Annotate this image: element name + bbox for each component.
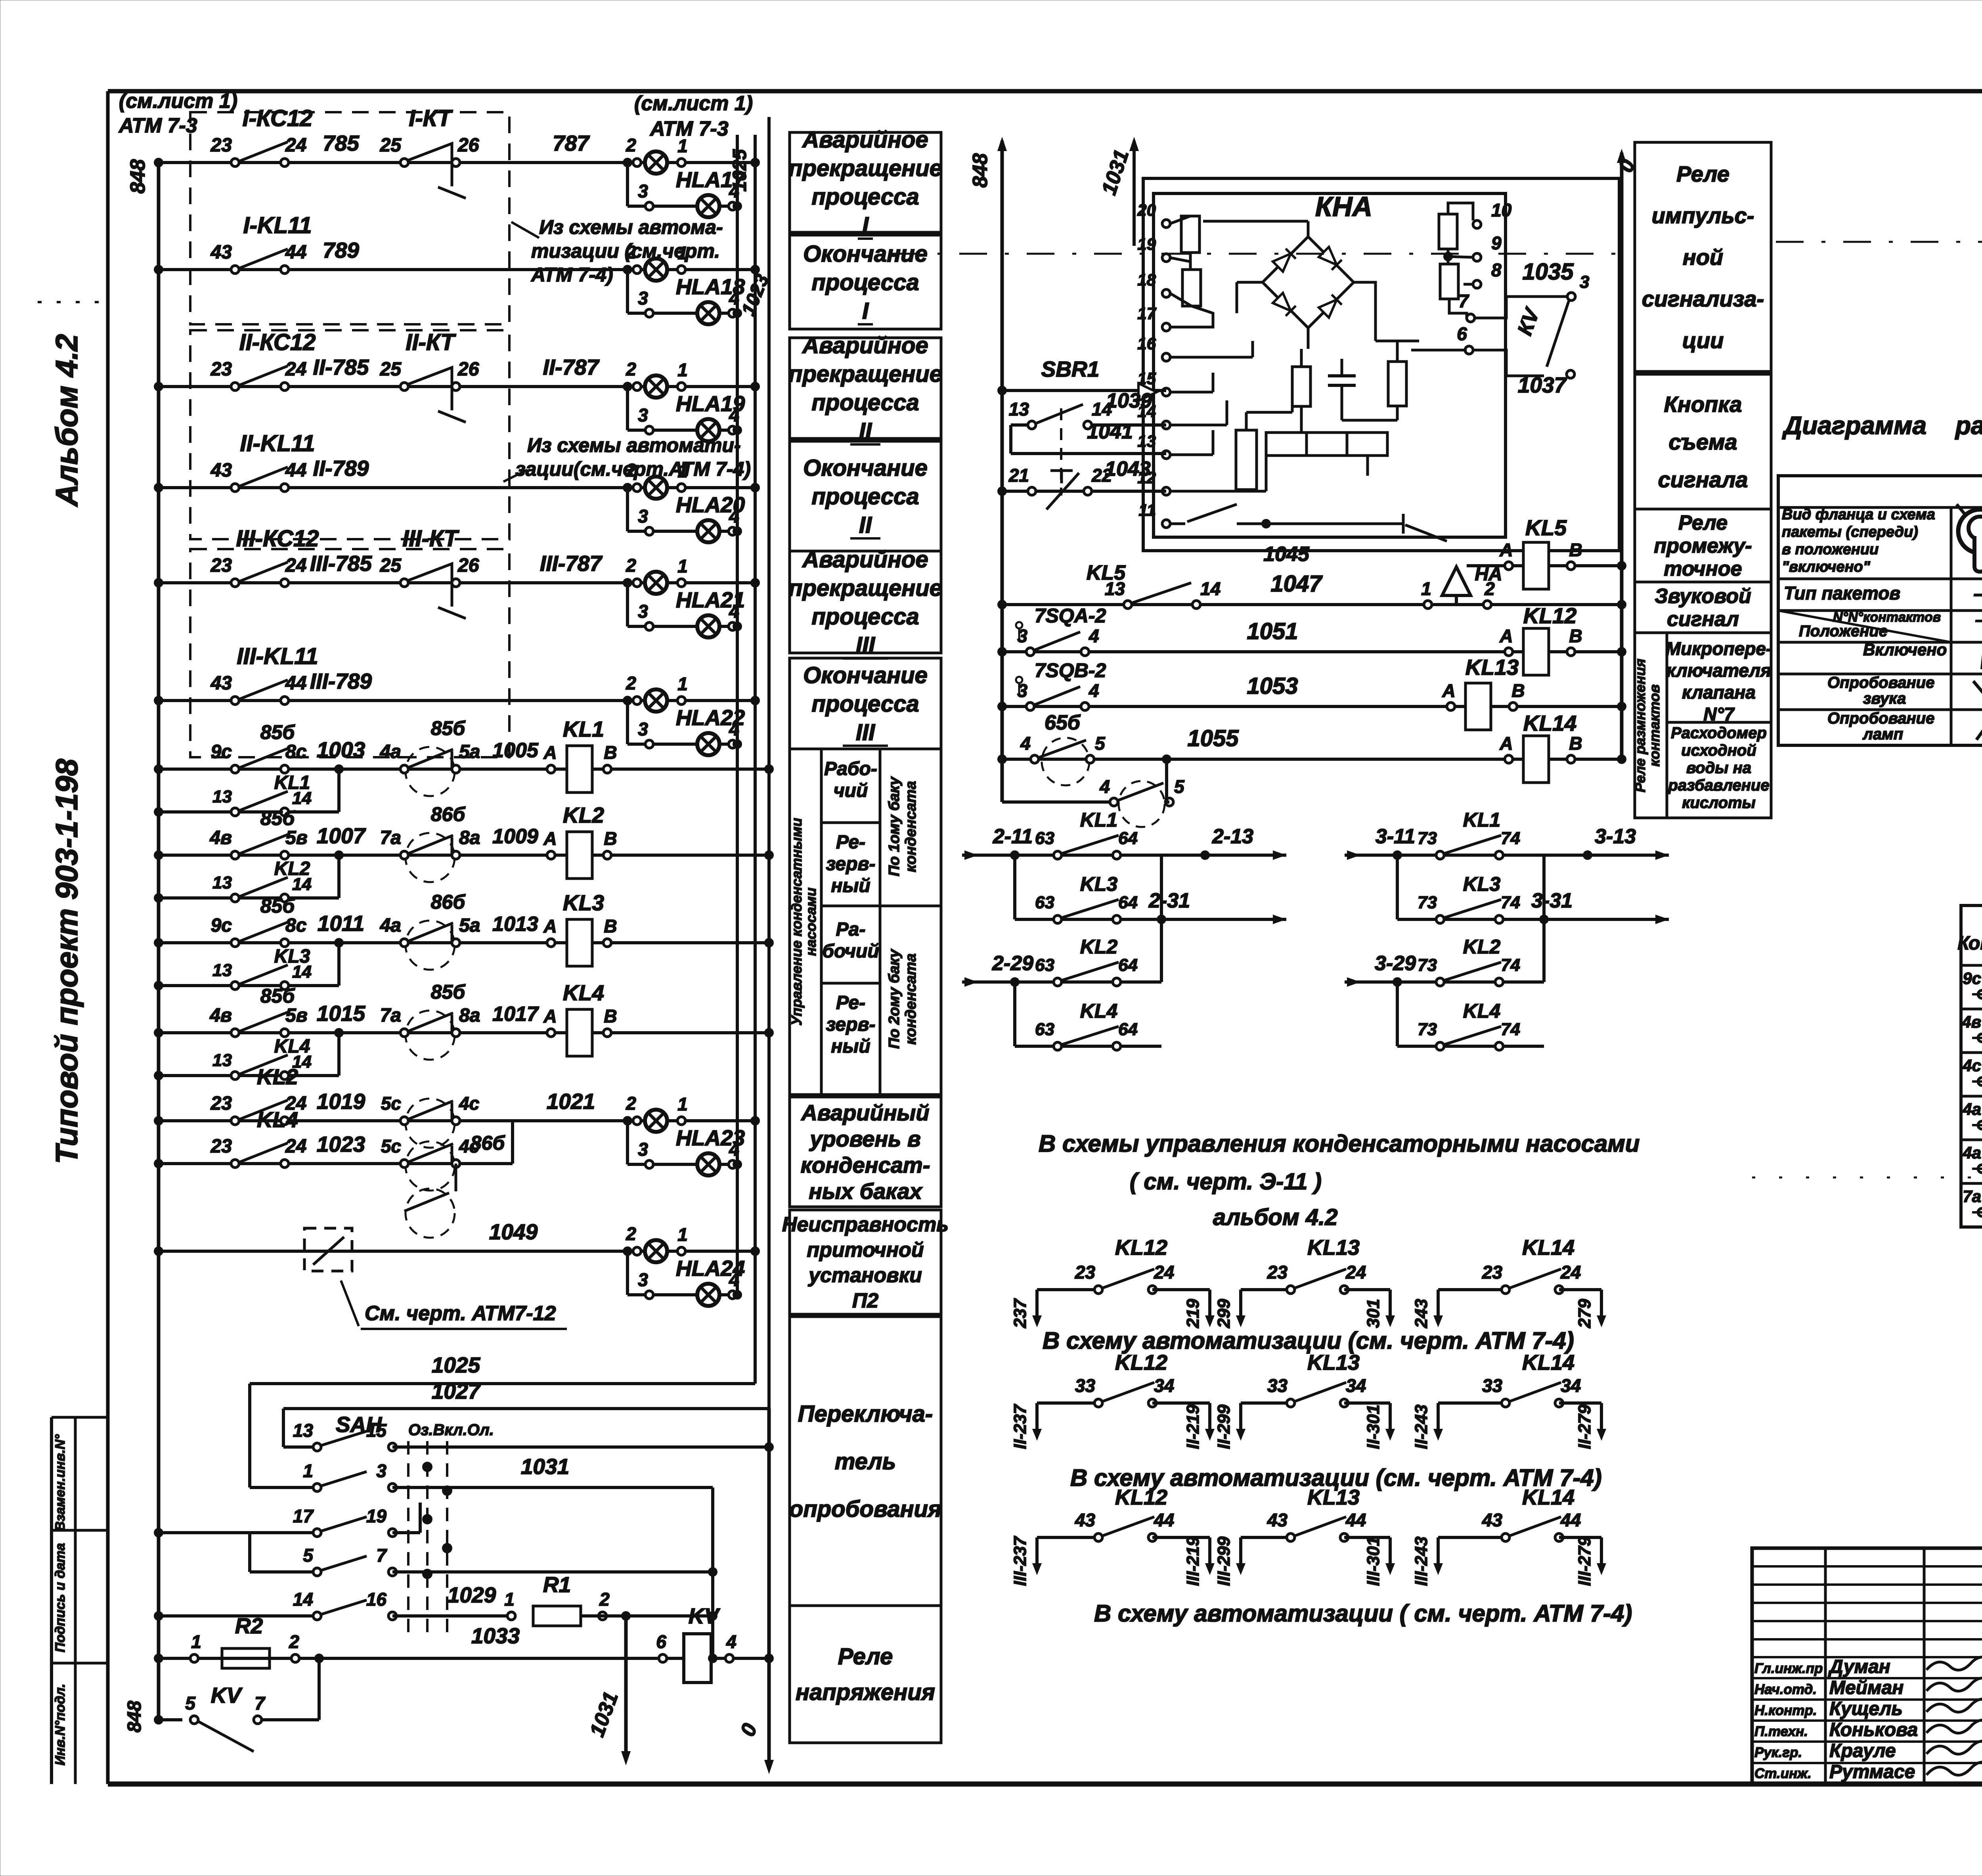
svg-text:По 2ому баку: По 2ому баку xyxy=(886,949,903,1049)
svg-text:приточной: приточной xyxy=(807,1239,924,1262)
svg-text:Микропере-: Микропере- xyxy=(1666,638,1772,659)
svg-text:А: А xyxy=(1499,540,1513,560)
svg-text:HLA17: HLA17 xyxy=(676,167,746,192)
svg-text:20: 20 xyxy=(1137,201,1156,219)
svg-text:2: 2 xyxy=(626,1223,636,1244)
svg-text:Ра-: Ра- xyxy=(836,919,866,940)
svg-text:13: 13 xyxy=(212,1051,232,1070)
svg-text:24: 24 xyxy=(285,359,306,380)
svg-text:Опробование: Опробование xyxy=(1827,674,1934,691)
svg-text:Мейман: Мейман xyxy=(1829,1677,1904,1698)
svg-text:73: 73 xyxy=(1418,893,1437,912)
svg-text:1043: 1043 xyxy=(1105,458,1151,480)
svg-text:II-299: II-299 xyxy=(1214,1404,1234,1449)
svg-text:2: 2 xyxy=(599,1589,610,1610)
svg-text:785: 785 xyxy=(323,131,360,155)
svg-text:1015: 1015 xyxy=(317,1001,366,1026)
svg-text:Положение: Положение xyxy=(1799,622,1888,640)
svg-text:7: 7 xyxy=(376,1545,387,1566)
svg-text:4в: 4в xyxy=(209,1005,232,1026)
svg-text:299: 299 xyxy=(1214,1299,1234,1329)
svg-text:Ре-: Ре- xyxy=(836,992,865,1013)
svg-text:Из схемы автомати-: Из схемы автомати- xyxy=(527,434,741,456)
svg-text:2: 2 xyxy=(626,555,636,576)
svg-text:6: 6 xyxy=(656,1631,666,1652)
svg-text:зерв-: зерв- xyxy=(826,854,876,875)
svg-text:В: В xyxy=(604,742,617,763)
svg-text:конденсат-: конденсат- xyxy=(801,1152,930,1177)
svg-text:KL13: KL13 xyxy=(1465,655,1519,680)
svg-text:21: 21 xyxy=(1008,465,1029,486)
svg-text:KL1: KL1 xyxy=(1080,809,1117,831)
svg-text:1049: 1049 xyxy=(489,1219,538,1244)
svg-text:1041: 1041 xyxy=(1087,420,1133,443)
svg-text:В схему автоматизации (с: В схему автоматизации (см. черт. АТМ 7-4… xyxy=(1043,1327,1574,1354)
svg-text:II-787: II-787 xyxy=(543,355,600,379)
svg-text:II-237: II-237 xyxy=(1010,1403,1030,1449)
svg-text:17: 17 xyxy=(293,1506,314,1526)
svg-text:Реле: Реле xyxy=(1676,161,1729,186)
svg-text:промежу-: промежу- xyxy=(1654,534,1752,557)
svg-text:13: 13 xyxy=(293,1420,314,1441)
svg-text:III-785: III-785 xyxy=(310,551,372,576)
svg-text:Типовой проект 903-1-198: Типовой проект 903-1-198 xyxy=(49,758,84,1164)
svg-text:II-219: II-219 xyxy=(1183,1404,1203,1449)
svg-text:KL4: KL4 xyxy=(1463,1000,1500,1022)
svg-text:1037: 1037 xyxy=(1518,373,1567,397)
svg-text:3: 3 xyxy=(638,1269,648,1290)
svg-text:ный: ный xyxy=(831,875,870,896)
svg-text:I-КТ: I-КТ xyxy=(409,105,453,131)
svg-text:HLA23: HLA23 xyxy=(676,1126,745,1150)
svg-text:44: 44 xyxy=(1560,1510,1581,1530)
svg-text:13: 13 xyxy=(212,787,232,806)
svg-text:II-279: II-279 xyxy=(1575,1404,1594,1449)
svg-text:Ст.инж.: Ст.инж. xyxy=(1754,1766,1812,1781)
svg-text:KL12: KL12 xyxy=(1115,1236,1167,1260)
svg-text:См. черт. АТМ7-12: См. черт. АТМ7-12 xyxy=(365,1302,556,1325)
svg-text:43: 43 xyxy=(1075,1510,1096,1530)
svg-text:1033: 1033 xyxy=(471,1623,520,1648)
svg-text:3: 3 xyxy=(638,1139,648,1160)
svg-text:848: 848 xyxy=(969,153,992,188)
svg-text:R2: R2 xyxy=(235,1614,263,1638)
svg-text:П2: П2 xyxy=(852,1289,878,1312)
svg-text:1: 1 xyxy=(303,1461,313,1481)
svg-text:контактов: контактов xyxy=(1646,684,1663,767)
svg-text:Неисправность: Неисправность xyxy=(782,1213,949,1236)
svg-text:3: 3 xyxy=(638,506,648,526)
svg-text:R1: R1 xyxy=(543,1572,571,1597)
svg-text:24: 24 xyxy=(1345,1262,1366,1283)
svg-text:KL1: KL1 xyxy=(274,772,310,793)
svg-text:В: В xyxy=(1569,626,1582,646)
svg-text:III: III xyxy=(856,720,876,745)
svg-text:1009: 1009 xyxy=(492,825,538,848)
svg-text:ламп: ламп xyxy=(1862,726,1903,743)
svg-text:Гл.инж.пр: Гл.инж.пр xyxy=(1754,1661,1823,1676)
svg-text:III-237: III-237 xyxy=(1010,1535,1030,1586)
svg-text:85б: 85б xyxy=(431,717,466,739)
svg-text:KL4: KL4 xyxy=(1080,1000,1117,1022)
svg-text:25: 25 xyxy=(380,135,402,156)
svg-text:4: 4 xyxy=(1089,626,1099,646)
svg-text:5: 5 xyxy=(1095,733,1106,754)
svg-text:9: 9 xyxy=(1491,233,1502,253)
svg-text:уровень в: уровень в xyxy=(809,1126,921,1151)
svg-text:43: 43 xyxy=(210,673,232,694)
svg-text:разбавление: разбавление xyxy=(1668,777,1769,794)
svg-text:1019: 1019 xyxy=(317,1089,365,1114)
svg-text:чий: чий xyxy=(834,780,868,801)
svg-text:2: 2 xyxy=(626,673,636,693)
svg-text:1: 1 xyxy=(677,1224,688,1245)
svg-text:43: 43 xyxy=(210,242,232,263)
svg-text:Рук.гр.: Рук.гр. xyxy=(1754,1745,1802,1760)
svg-text:5: 5 xyxy=(303,1545,314,1566)
svg-text:787: 787 xyxy=(553,131,590,155)
svg-text:23: 23 xyxy=(1075,1262,1096,1283)
svg-text:86б: 86б xyxy=(471,1132,506,1154)
svg-text:II-301: II-301 xyxy=(1364,1405,1383,1449)
svg-text:III-219: III-219 xyxy=(1183,1536,1203,1586)
svg-text:1: 1 xyxy=(677,556,688,576)
svg-text:—: — xyxy=(1975,610,1982,630)
svg-text:III-301: III-301 xyxy=(1364,1537,1383,1586)
svg-text:3: 3 xyxy=(376,1461,386,1481)
svg-text:тизации (см.черт.: тизации (см.черт. xyxy=(531,240,720,262)
svg-text:5: 5 xyxy=(185,1693,196,1713)
svg-text:пакеты (спереди): пакеты (спереди) xyxy=(1782,524,1918,540)
svg-text:Из схемы автома-: Из схемы автома- xyxy=(539,216,723,238)
svg-text:импульс-: импульс- xyxy=(1652,203,1754,228)
svg-text:33: 33 xyxy=(1075,1375,1096,1396)
svg-text:KL4: KL4 xyxy=(257,1107,298,1132)
svg-text:Альбом 4.2: Альбом 4.2 xyxy=(49,334,84,507)
svg-text:24: 24 xyxy=(1154,1262,1174,1283)
svg-text:В схему автоматизации ( с: В схему автоматизации ( см. черт. АТМ 7-… xyxy=(1094,1600,1632,1627)
svg-text:8: 8 xyxy=(1491,260,1502,280)
svg-text:Аварийное: Аварийное xyxy=(802,333,928,358)
svg-text:24: 24 xyxy=(285,555,306,576)
svg-text:III-243: III-243 xyxy=(1412,1537,1431,1586)
svg-text:KL1: KL1 xyxy=(1463,809,1500,831)
svg-text:2-31: 2-31 xyxy=(1148,889,1190,912)
svg-text:4: 4 xyxy=(1089,680,1099,701)
svg-text:Думан: Думан xyxy=(1828,1656,1890,1677)
svg-text:KL2: KL2 xyxy=(274,858,310,879)
svg-text:АТМ 7-3: АТМ 7-3 xyxy=(649,117,729,140)
svg-text:KL2: KL2 xyxy=(563,803,604,827)
svg-text:Нач.отд.: Нач.отд. xyxy=(1754,1682,1817,1697)
svg-text:10: 10 xyxy=(1491,200,1512,220)
svg-text:26: 26 xyxy=(457,359,479,380)
svg-text:Реле: Реле xyxy=(1678,511,1728,534)
svg-text:Звуковой: Звуковой xyxy=(1655,585,1751,608)
svg-text:16: 16 xyxy=(366,1589,387,1610)
svg-text:напряжения: напряжения xyxy=(796,1679,935,1705)
svg-text:1053: 1053 xyxy=(1247,673,1298,699)
svg-text:73: 73 xyxy=(1418,1020,1437,1039)
svg-text:13: 13 xyxy=(212,961,232,980)
svg-text:насосами: насосами xyxy=(803,888,819,956)
svg-text:KL2: KL2 xyxy=(257,1064,298,1089)
svg-text:3: 3 xyxy=(638,181,648,201)
svg-text:А: А xyxy=(543,742,557,763)
svg-text:1013: 1013 xyxy=(492,913,538,936)
svg-text:9с: 9с xyxy=(1963,969,1981,988)
svg-text:4: 4 xyxy=(726,1631,737,1652)
svg-text:789: 789 xyxy=(323,238,359,262)
svg-text:1027: 1027 xyxy=(432,1379,481,1403)
svg-text:II-789: II-789 xyxy=(313,456,369,480)
svg-text:34: 34 xyxy=(1154,1375,1174,1396)
svg-text:опробования: опробования xyxy=(789,1496,941,1522)
svg-text:конденсата: конденсата xyxy=(903,953,919,1045)
svg-text:7: 7 xyxy=(254,1693,266,1713)
svg-text:85б: 85б xyxy=(431,981,466,1003)
svg-text:"включено": "включено" xyxy=(1782,559,1871,575)
svg-text:11: 11 xyxy=(1138,501,1156,519)
svg-text:III-299: III-299 xyxy=(1214,1536,1234,1586)
svg-text:24: 24 xyxy=(1560,1262,1581,1283)
svg-text:В: В xyxy=(1511,680,1525,701)
svg-text:KL14: KL14 xyxy=(1523,711,1577,735)
svg-text:сигнализа-: сигнализа- xyxy=(1642,286,1764,311)
svg-text:44: 44 xyxy=(1345,1510,1366,1530)
svg-text:прекращение: прекращение xyxy=(788,155,942,181)
svg-text:1: 1 xyxy=(677,136,688,156)
svg-text:2: 2 xyxy=(289,1631,299,1652)
svg-text:279: 279 xyxy=(1575,1299,1594,1329)
svg-text:65б: 65б xyxy=(1045,711,1081,734)
svg-text:5: 5 xyxy=(1174,776,1185,797)
svg-text:воды на: воды на xyxy=(1686,759,1751,777)
svg-text:KL4: KL4 xyxy=(563,980,604,1005)
svg-text:4а: 4а xyxy=(1962,1143,1981,1162)
svg-text:64: 64 xyxy=(1118,1020,1138,1039)
svg-text:23: 23 xyxy=(1267,1262,1288,1283)
svg-text:KL3: KL3 xyxy=(274,946,310,967)
svg-text:301: 301 xyxy=(1364,1299,1383,1328)
svg-text:86б: 86б xyxy=(431,891,466,913)
svg-text:33: 33 xyxy=(1267,1375,1288,1396)
svg-text:1035: 1035 xyxy=(1522,259,1574,285)
svg-text:II-КС12: II-КС12 xyxy=(239,329,316,355)
svg-text:Кнопка: Кнопка xyxy=(1664,392,1742,417)
svg-text:Переключа-: Переключа- xyxy=(798,1401,933,1427)
svg-text:1003: 1003 xyxy=(317,737,365,762)
svg-text:4: 4 xyxy=(1020,733,1031,754)
svg-text:63: 63 xyxy=(1035,955,1054,975)
svg-text:18: 18 xyxy=(1137,270,1156,289)
svg-text:15: 15 xyxy=(366,1420,387,1441)
svg-text:2-11: 2-11 xyxy=(993,825,1033,848)
svg-text:KL5: KL5 xyxy=(1525,515,1567,540)
svg-text:1029: 1029 xyxy=(448,1583,496,1607)
svg-text:процесса: процесса xyxy=(811,604,919,630)
svg-text:(см.лист 1): (см.лист 1) xyxy=(634,92,753,115)
svg-text:1: 1 xyxy=(677,1094,688,1114)
svg-text:процесса: процесса xyxy=(811,691,919,717)
svg-text:KL13: KL13 xyxy=(1307,1351,1360,1374)
svg-text:Управление конденсатными: Управление конденсатными xyxy=(788,818,805,1026)
svg-text:ции: ции xyxy=(1682,328,1724,353)
svg-text:7SQB-2: 7SQB-2 xyxy=(1035,659,1106,681)
svg-text:KV: KV xyxy=(211,1683,243,1708)
svg-text:74: 74 xyxy=(1501,829,1520,848)
svg-text:Аварийное: Аварийное xyxy=(802,547,928,572)
svg-text:26: 26 xyxy=(457,555,479,576)
svg-text:13: 13 xyxy=(212,873,232,892)
svg-text:процесса: процесса xyxy=(811,484,919,509)
svg-text:1011: 1011 xyxy=(318,911,364,936)
svg-text:5в: 5в xyxy=(285,1005,308,1026)
svg-text:KL3: KL3 xyxy=(563,890,604,915)
svg-text:KL2: KL2 xyxy=(1080,936,1118,958)
svg-text:Инв.N°подл.: Инв.N°подл. xyxy=(53,1684,68,1765)
svg-text:3: 3 xyxy=(638,601,648,622)
svg-text:Аварийное: Аварийное xyxy=(802,127,928,153)
svg-text:1: 1 xyxy=(677,360,688,380)
svg-text:25: 25 xyxy=(380,555,402,576)
svg-text:Взамен.инв.N°: Взамен.инв.N° xyxy=(53,1434,68,1531)
svg-text:5а: 5а xyxy=(459,741,480,762)
svg-text:KL3: KL3 xyxy=(1463,873,1501,895)
svg-text:1039: 1039 xyxy=(1106,389,1152,412)
svg-text:1051: 1051 xyxy=(1247,618,1298,644)
svg-text:74: 74 xyxy=(1501,1020,1520,1039)
svg-text:3: 3 xyxy=(638,719,648,739)
svg-text:III: III xyxy=(856,632,876,658)
svg-text:HLA19: HLA19 xyxy=(676,391,745,416)
svg-text:точное: точное xyxy=(1664,557,1742,580)
svg-text:KL14: KL14 xyxy=(1522,1236,1575,1260)
svg-text:1005: 1005 xyxy=(492,739,539,762)
svg-text:процесса: процесса xyxy=(811,270,919,295)
svg-text:64: 64 xyxy=(1118,829,1138,848)
svg-text:1: 1 xyxy=(191,1631,201,1652)
svg-text:85б: 85б xyxy=(260,985,296,1007)
svg-text:II-785: II-785 xyxy=(313,355,369,379)
svg-text:Диаграмма работы переключателя: Диаграмма работы переключателя опробован… xyxy=(1782,411,1982,440)
svg-text:4а: 4а xyxy=(380,741,401,762)
svg-text:бочий: бочий xyxy=(822,941,879,962)
svg-text:2: 2 xyxy=(626,135,636,155)
svg-text:HLA22: HLA22 xyxy=(676,705,745,730)
svg-text:1: 1 xyxy=(504,1589,515,1610)
svg-text:HLA20: HLA20 xyxy=(676,492,745,517)
svg-text:25: 25 xyxy=(380,359,402,380)
svg-text:Реле: Реле xyxy=(838,1644,893,1669)
svg-text:кислоты: кислоты xyxy=(1682,794,1755,812)
svg-text:63: 63 xyxy=(1035,1020,1054,1039)
svg-text:63: 63 xyxy=(1035,829,1054,848)
svg-text:АТМ 7-4): АТМ 7-4) xyxy=(530,264,613,286)
svg-text:тель: тель xyxy=(835,1449,896,1474)
svg-text:Расходомер: Расходомер xyxy=(1671,724,1767,742)
svg-text:13: 13 xyxy=(1137,432,1156,450)
svg-text:В: В xyxy=(1569,540,1582,560)
svg-text:—: — xyxy=(1974,582,1982,605)
svg-text:III-279: III-279 xyxy=(1575,1536,1594,1586)
svg-text:KL12: KL12 xyxy=(1523,603,1577,628)
svg-text:В схемы управления конден: В схемы управления конденсаторными насос… xyxy=(1039,1130,1640,1157)
svg-text:7а: 7а xyxy=(380,827,401,848)
svg-text:4в: 4в xyxy=(209,827,232,848)
svg-text:44: 44 xyxy=(285,242,306,263)
svg-text:44: 44 xyxy=(285,460,306,481)
svg-text:А: А xyxy=(543,916,557,936)
svg-text:3: 3 xyxy=(1017,626,1027,646)
svg-text:Аварийный: Аварийный xyxy=(800,1100,929,1125)
svg-text:сигнал: сигнал xyxy=(1667,608,1739,631)
svg-text:зерв-: зерв- xyxy=(826,1014,876,1035)
svg-text:1007: 1007 xyxy=(317,823,366,848)
svg-text:KL13: KL13 xyxy=(1307,1485,1360,1509)
svg-text:В: В xyxy=(604,916,617,936)
svg-text:в положении: в положении xyxy=(1782,541,1879,558)
svg-text:ной: ной xyxy=(1683,245,1723,270)
svg-text:ных баках: ных баках xyxy=(809,1179,923,1204)
svg-text:По 1ому баку: По 1ому баку xyxy=(886,776,903,877)
svg-text:KL13: KL13 xyxy=(1307,1236,1360,1260)
svg-text:24: 24 xyxy=(285,135,306,156)
svg-text:В: В xyxy=(604,1006,617,1026)
svg-text:КНА: КНА xyxy=(1315,191,1372,222)
svg-text:В: В xyxy=(604,828,617,849)
svg-text:ный: ный xyxy=(831,1036,870,1057)
svg-text:23: 23 xyxy=(210,555,232,576)
svg-text:А: А xyxy=(1442,680,1455,701)
svg-text:7SQA-2: 7SQA-2 xyxy=(1035,605,1106,627)
svg-text:KL14: KL14 xyxy=(1522,1351,1575,1374)
svg-text:85б: 85б xyxy=(260,807,296,829)
svg-text:сигнала: сигнала xyxy=(1658,467,1748,492)
svg-text:П.техн.: П.техн. xyxy=(1754,1724,1808,1739)
svg-text:16: 16 xyxy=(1137,334,1156,353)
svg-text:Н.контр.: Н.контр. xyxy=(1754,1703,1817,1718)
svg-text:звука: звука xyxy=(1863,690,1906,707)
svg-text:процесса: процесса xyxy=(811,184,919,210)
svg-text:9с: 9с xyxy=(211,741,232,762)
svg-text:8с: 8с xyxy=(285,741,306,762)
svg-text:34: 34 xyxy=(1346,1375,1366,1396)
svg-text:II-KL11: II-KL11 xyxy=(240,431,315,456)
svg-text:Ре-: Ре- xyxy=(836,832,865,853)
svg-text:4а: 4а xyxy=(380,915,401,936)
svg-text:II-243: II-243 xyxy=(1412,1405,1431,1449)
svg-text:KV: KV xyxy=(689,1604,721,1628)
svg-text:86б: 86б xyxy=(431,803,466,825)
svg-text:конденсата: конденсата xyxy=(903,781,919,872)
svg-text:процесса: процесса xyxy=(811,390,919,415)
svg-text:23: 23 xyxy=(210,1093,232,1114)
svg-text:4а: 4а xyxy=(1962,1100,1981,1118)
svg-text:8с: 8с xyxy=(285,915,306,936)
svg-text:3-13: 3-13 xyxy=(1595,825,1636,848)
svg-text:44: 44 xyxy=(285,673,306,694)
svg-text:8а: 8а xyxy=(459,827,480,848)
svg-text:73: 73 xyxy=(1418,955,1437,975)
svg-text:зации(см.черт.АТМ 7-4): зации(см.черт.АТМ 7-4) xyxy=(515,458,751,480)
svg-text:23: 23 xyxy=(210,359,232,380)
svg-text:KL14: KL14 xyxy=(1522,1485,1575,1509)
svg-text:3: 3 xyxy=(1017,680,1027,701)
svg-text:Контакты: Контакты xyxy=(1957,933,1982,954)
svg-text:3: 3 xyxy=(638,288,648,308)
svg-text:III-789: III-789 xyxy=(310,669,372,693)
